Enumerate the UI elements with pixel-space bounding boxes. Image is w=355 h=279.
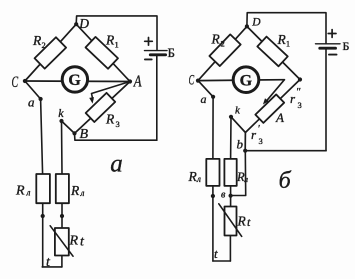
svg-text:a: a xyxy=(201,92,207,106)
svg-text:R: R xyxy=(69,234,79,249)
svg-text:R: R xyxy=(277,32,287,47)
svg-text:R: R xyxy=(70,183,80,198)
svg-text:r: r xyxy=(251,127,257,142)
svg-text:b: b xyxy=(237,137,244,152)
svg-text:л: л xyxy=(26,188,31,198)
svg-text:k: k xyxy=(58,106,64,120)
svg-text:a: a xyxy=(110,150,123,177)
svg-text:3: 3 xyxy=(259,136,263,146)
svg-text:t: t xyxy=(80,234,85,249)
svg-text:r: r xyxy=(290,91,296,106)
svg-text:″: ″ xyxy=(297,86,302,98)
svg-text:′: ′ xyxy=(258,123,260,135)
svg-text:D: D xyxy=(251,17,261,29)
svg-text:t: t xyxy=(46,255,51,270)
svg-text:A: A xyxy=(133,73,142,91)
svg-text:t: t xyxy=(214,246,218,261)
svg-text:1: 1 xyxy=(286,40,290,49)
svg-text:R: R xyxy=(15,184,25,199)
svg-text:B: B xyxy=(80,127,89,142)
svg-text:a: a xyxy=(28,95,35,110)
svg-text:1: 1 xyxy=(115,40,119,50)
svg-text:G: G xyxy=(68,72,81,89)
svg-text:л: л xyxy=(244,175,249,184)
svg-text:л: л xyxy=(196,174,201,184)
svg-text:R: R xyxy=(188,169,198,184)
svg-text:C: C xyxy=(12,73,19,91)
svg-text:R: R xyxy=(211,32,221,47)
svg-text:л: л xyxy=(80,188,85,198)
svg-text:б: б xyxy=(279,168,292,194)
svg-text:R: R xyxy=(237,214,247,229)
svg-text:2: 2 xyxy=(42,40,46,50)
svg-text:2: 2 xyxy=(221,39,225,49)
svg-text:Б: Б xyxy=(168,45,175,60)
svg-text:t: t xyxy=(247,215,251,229)
svg-text:3: 3 xyxy=(298,100,302,110)
svg-text:R: R xyxy=(105,112,115,127)
svg-text:Б: Б xyxy=(343,39,350,53)
svg-text:D: D xyxy=(78,16,89,31)
svg-text:в: в xyxy=(221,190,226,201)
svg-text:C: C xyxy=(189,71,195,88)
svg-text:A: A xyxy=(275,110,284,125)
svg-text:R: R xyxy=(105,33,115,48)
svg-text:G: G xyxy=(240,72,253,89)
svg-text:k: k xyxy=(235,105,241,117)
svg-text:3: 3 xyxy=(116,119,120,129)
svg-text:R: R xyxy=(32,33,42,48)
